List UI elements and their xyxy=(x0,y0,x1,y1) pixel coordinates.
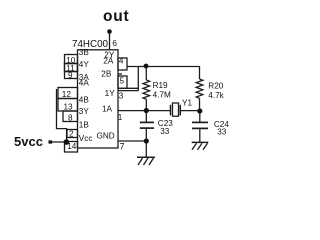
svg-text:33: 33 xyxy=(217,127,227,136)
svg-text:1B: 1B xyxy=(79,121,90,130)
svg-text:4: 4 xyxy=(119,56,124,65)
svg-text:33: 33 xyxy=(160,127,170,136)
svg-text:1: 1 xyxy=(118,113,123,122)
svg-text:3: 3 xyxy=(119,91,124,100)
svg-text:1A: 1A xyxy=(102,104,113,113)
svg-text:2B: 2B xyxy=(101,70,112,79)
svg-text:Y1: Y1 xyxy=(182,98,192,107)
svg-text:5vcc: 5vcc xyxy=(14,134,43,149)
svg-text:R20: R20 xyxy=(208,82,223,91)
svg-text:4.7M: 4.7M xyxy=(153,90,171,99)
svg-text:GND: GND xyxy=(96,132,114,141)
svg-text:3Y: 3Y xyxy=(79,107,90,116)
svg-text:4.7k: 4.7k xyxy=(208,91,224,100)
svg-text:4Y: 4Y xyxy=(79,60,90,69)
svg-text:5: 5 xyxy=(120,76,125,85)
svg-text:74HC00: 74HC00 xyxy=(72,39,108,50)
svg-text:3B: 3B xyxy=(79,48,90,57)
svg-text:13: 13 xyxy=(64,102,74,111)
svg-text:12: 12 xyxy=(62,90,72,99)
svg-text:out: out xyxy=(103,8,130,25)
svg-text:2A: 2A xyxy=(103,57,114,66)
svg-text:4B: 4B xyxy=(79,96,90,105)
svg-text:Vcc: Vcc xyxy=(79,134,93,143)
svg-text:6: 6 xyxy=(112,39,117,48)
svg-text:1Y: 1Y xyxy=(105,89,116,98)
svg-text:9: 9 xyxy=(68,71,73,80)
svg-text:2: 2 xyxy=(69,130,74,139)
svg-text:R19: R19 xyxy=(153,81,168,90)
svg-text:8: 8 xyxy=(68,114,73,123)
svg-text:7: 7 xyxy=(120,141,125,151)
svg-text:4A: 4A xyxy=(79,79,90,88)
svg-text:14: 14 xyxy=(67,142,77,151)
